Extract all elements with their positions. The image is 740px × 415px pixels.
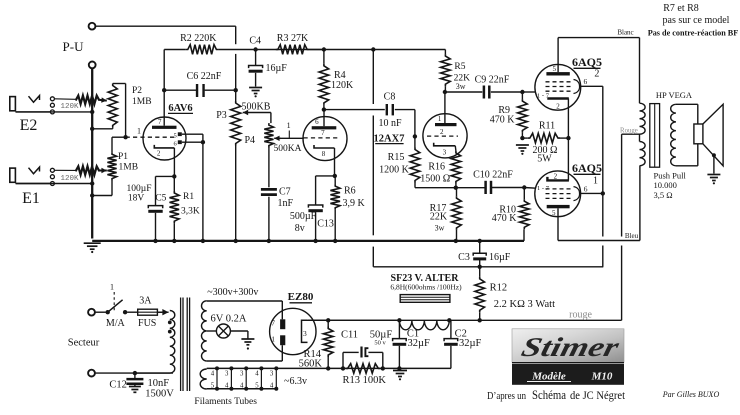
svg-text:12AX7: 12AX7 xyxy=(374,134,405,145)
svg-text:Secteur: Secteur xyxy=(68,337,100,348)
svg-text:FUS: FUS xyxy=(138,318,156,329)
svg-text:6: 6 xyxy=(584,77,588,86)
svg-text:470 K: 470 K xyxy=(492,213,518,224)
svg-text:C8: C8 xyxy=(384,92,396,103)
svg-text:C11: C11 xyxy=(341,330,358,341)
svg-text:1200 K: 1200 K xyxy=(379,165,410,176)
svg-text:8v: 8v xyxy=(295,223,305,234)
svg-text:R2 220K: R2 220K xyxy=(180,33,217,44)
svg-text:7: 7 xyxy=(321,129,325,137)
svg-text:3w: 3w xyxy=(456,82,466,91)
svg-text:32µF: 32µF xyxy=(408,338,431,349)
svg-text:5W: 5W xyxy=(537,154,552,165)
svg-text:5: 5 xyxy=(255,382,259,389)
svg-text:4: 4 xyxy=(255,370,259,377)
svg-text:6AQ5: 6AQ5 xyxy=(572,55,602,69)
svg-text:32µF: 32µF xyxy=(459,338,482,349)
svg-text:120K: 120K xyxy=(60,175,79,183)
svg-text:EZ80: EZ80 xyxy=(288,291,314,303)
svg-text:1 - 7: 1 - 7 xyxy=(537,93,550,100)
svg-text:pas sur ce model: pas sur ce model xyxy=(663,15,730,26)
svg-text:R12: R12 xyxy=(490,283,508,294)
svg-text:3: 3 xyxy=(240,370,244,377)
svg-text:R16: R16 xyxy=(428,162,445,173)
svg-text:2: 2 xyxy=(556,102,560,110)
svg-text:3: 3 xyxy=(443,149,447,157)
svg-text:Bleu: Bleu xyxy=(625,232,639,240)
svg-text:470 K: 470 K xyxy=(490,115,516,126)
svg-text:rouge: rouge xyxy=(569,310,592,321)
svg-text:2: 2 xyxy=(594,69,599,80)
svg-text:10 nF: 10 nF xyxy=(378,118,402,129)
svg-text:5: 5 xyxy=(552,209,556,217)
svg-text:1500V: 1500V xyxy=(145,389,174,400)
svg-text:D’apres un: D’apres un xyxy=(487,391,527,402)
svg-text:C6 22nF: C6 22nF xyxy=(187,71,222,82)
svg-text:3w: 3w xyxy=(435,224,445,233)
svg-text:~6.3v: ~6.3v xyxy=(284,376,307,387)
svg-text:M10: M10 xyxy=(591,371,613,383)
svg-text:1: 1 xyxy=(287,121,291,130)
svg-text:HP VEGA: HP VEGA xyxy=(656,90,693,100)
svg-text:C10 22nF: C10 22nF xyxy=(473,169,513,180)
svg-text:P3: P3 xyxy=(216,110,227,121)
svg-text:C4: C4 xyxy=(249,36,261,47)
svg-text:4: 4 xyxy=(211,370,215,377)
svg-text:8: 8 xyxy=(322,150,326,158)
svg-text:C12: C12 xyxy=(109,380,127,391)
svg-text:120K: 120K xyxy=(60,103,79,111)
svg-text:Par Gilles BUXO: Par Gilles BUXO xyxy=(662,390,720,399)
svg-text:3: 3 xyxy=(270,370,274,377)
svg-text:1: 1 xyxy=(593,176,598,187)
svg-text:16µF: 16µF xyxy=(489,252,511,263)
svg-text:C3: C3 xyxy=(458,252,470,263)
svg-text:2: 2 xyxy=(554,173,558,181)
svg-text:1: 1 xyxy=(438,115,442,123)
svg-text:P1: P1 xyxy=(118,152,128,162)
svg-text:1: 1 xyxy=(271,335,275,344)
svg-text:P-U: P-U xyxy=(63,39,85,54)
svg-text:6AQ5: 6AQ5 xyxy=(572,161,602,175)
svg-text:Stimer: Stimer xyxy=(519,332,623,362)
svg-text:4: 4 xyxy=(240,382,244,389)
svg-text:120K: 120K xyxy=(331,80,354,91)
svg-text:R13 100K: R13 100K xyxy=(342,375,386,386)
svg-text:C7: C7 xyxy=(279,187,291,198)
svg-text:Pas de contre-réaction BF: Pas de contre-réaction BF xyxy=(648,29,739,38)
svg-text:6: 6 xyxy=(584,185,588,194)
svg-text:4: 4 xyxy=(225,382,229,389)
svg-text:Blanc: Blanc xyxy=(617,28,633,36)
svg-text:3A: 3A xyxy=(139,296,152,307)
svg-text:5: 5 xyxy=(211,382,215,389)
svg-text:6V 0.2A: 6V 0.2A xyxy=(211,314,247,325)
svg-text:3: 3 xyxy=(303,329,307,338)
svg-text:C5: C5 xyxy=(155,194,166,204)
svg-text:E2: E2 xyxy=(20,117,38,134)
svg-text:7: 7 xyxy=(158,118,162,126)
svg-text:2: 2 xyxy=(157,150,161,158)
svg-text:500KA: 500KA xyxy=(274,144,302,154)
svg-text:1MB: 1MB xyxy=(132,97,152,107)
svg-text:~300v+300v: ~300v+300v xyxy=(207,287,258,298)
svg-text:6,8H(600ohms /100Hz): 6,8H(600ohms /100Hz) xyxy=(390,282,462,291)
svg-text:1: 1 xyxy=(137,127,141,136)
svg-text:22K: 22K xyxy=(430,212,448,223)
svg-text:5: 5 xyxy=(552,65,556,73)
svg-text:E1: E1 xyxy=(22,190,40,207)
svg-text:P4: P4 xyxy=(244,135,255,146)
svg-text:6: 6 xyxy=(315,118,319,126)
svg-text:Rouge: Rouge xyxy=(620,127,638,134)
svg-text:Push Pull: Push Pull xyxy=(654,171,687,181)
svg-text:C9 22nF: C9 22nF xyxy=(475,75,510,86)
svg-text:R7 et R8: R7 et R8 xyxy=(663,3,699,14)
svg-text:P2: P2 xyxy=(132,86,142,96)
svg-text:100µF: 100µF xyxy=(126,184,151,194)
svg-text:Schéma: Schéma xyxy=(532,387,566,402)
svg-text:2: 2 xyxy=(440,128,444,136)
svg-text:C13: C13 xyxy=(317,219,334,230)
svg-text:500µF: 500µF xyxy=(290,211,317,222)
svg-text:500KB: 500KB xyxy=(242,102,271,113)
svg-text:16µF: 16µF xyxy=(266,63,288,74)
svg-text:4: 4 xyxy=(270,382,274,389)
svg-text:R5: R5 xyxy=(454,62,465,72)
svg-text:3,5 Ω: 3,5 Ω xyxy=(654,190,673,200)
svg-text:7: 7 xyxy=(271,319,275,328)
svg-text:50 v: 50 v xyxy=(374,340,386,347)
svg-text:10nF: 10nF xyxy=(148,378,170,389)
svg-text:Filaments Tubes: Filaments Tubes xyxy=(194,397,257,407)
svg-text:de JC Négret: de JC Négret xyxy=(570,388,626,402)
svg-text:6AV6: 6AV6 xyxy=(168,103,192,114)
svg-text:3,9 K: 3,9 K xyxy=(343,198,366,209)
svg-text:1500 Ω: 1500 Ω xyxy=(420,174,450,185)
svg-text:R11: R11 xyxy=(539,121,555,132)
svg-text:10.000: 10.000 xyxy=(654,180,677,190)
svg-text:5: 5 xyxy=(174,132,177,139)
svg-text:560K: 560K xyxy=(299,359,323,370)
svg-text:2.2 KΩ 3 Watt: 2.2 KΩ 3 Watt xyxy=(494,299,555,310)
svg-text:18V: 18V xyxy=(128,194,145,204)
svg-text:1: 1 xyxy=(110,283,114,292)
svg-text:R15: R15 xyxy=(388,152,405,163)
svg-text:R3 27K: R3 27K xyxy=(277,33,309,44)
svg-text:3,3K: 3,3K xyxy=(181,207,200,217)
svg-text:R6: R6 xyxy=(344,186,356,197)
svg-text:1nF: 1nF xyxy=(278,198,294,209)
svg-text:Modèle: Modèle xyxy=(531,371,566,383)
svg-text:M/A: M/A xyxy=(106,318,126,329)
svg-text:R1: R1 xyxy=(183,192,194,202)
svg-text:3: 3 xyxy=(225,370,229,377)
svg-text:1MB: 1MB xyxy=(119,163,139,173)
